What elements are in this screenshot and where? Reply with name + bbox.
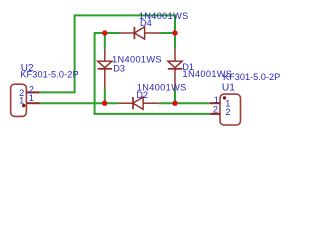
svg-text:2: 2 (225, 107, 230, 117)
svg-text:D4: D4 (140, 18, 152, 28)
svg-text:D2: D2 (136, 90, 148, 100)
wire node A to D4 cathode lead (105, 32, 121, 34)
wire U2 pin1 to D2 left (40, 102, 119, 104)
wire node A to D3 anode (104, 33, 106, 49)
svg-text:KF301-5.0-2P: KF301-5.0-2P (20, 70, 78, 80)
wire D4 anode lead to node B (160, 32, 175, 34)
svg-text:1: 1 (29, 93, 34, 103)
svg-text:2: 2 (213, 104, 218, 114)
junction node B (172, 30, 177, 35)
connector U1 body (220, 94, 241, 125)
connector U2 pin 1 stub (26, 102, 39, 104)
junction node C (102, 101, 107, 106)
wire node A to bottom bus to U1 pin2 (95, 33, 210, 114)
connector U1 pin 2 stub (210, 113, 220, 115)
connector U1 pin 1 stub (210, 102, 220, 104)
wire U2 pin2 to top bus to node B (40, 15, 176, 92)
junction node A (102, 30, 107, 35)
svg-text:1: 1 (19, 96, 24, 106)
junction node D (172, 101, 177, 106)
svg-text:KF301-5.0-2P: KF301-5.0-2P (223, 72, 280, 82)
connector U2 body (11, 84, 27, 116)
diode D3 (98, 49, 112, 89)
connector U1 pin 1 marker (223, 96, 226, 99)
wire D1 cathode to node D (174, 89, 176, 103)
diode D1 (168, 49, 182, 89)
wire D3 cathode to node C (104, 89, 106, 103)
diode D4 (120, 27, 160, 39)
connector U2 pin 2 stub (26, 91, 39, 93)
connector U2 pin 1 marker (22, 104, 25, 107)
svg-text:U1: U1 (222, 82, 235, 93)
svg-text:D3: D3 (113, 63, 125, 73)
diode D2 (118, 97, 159, 109)
wire D2 right to U1 pin1 (159, 102, 210, 104)
